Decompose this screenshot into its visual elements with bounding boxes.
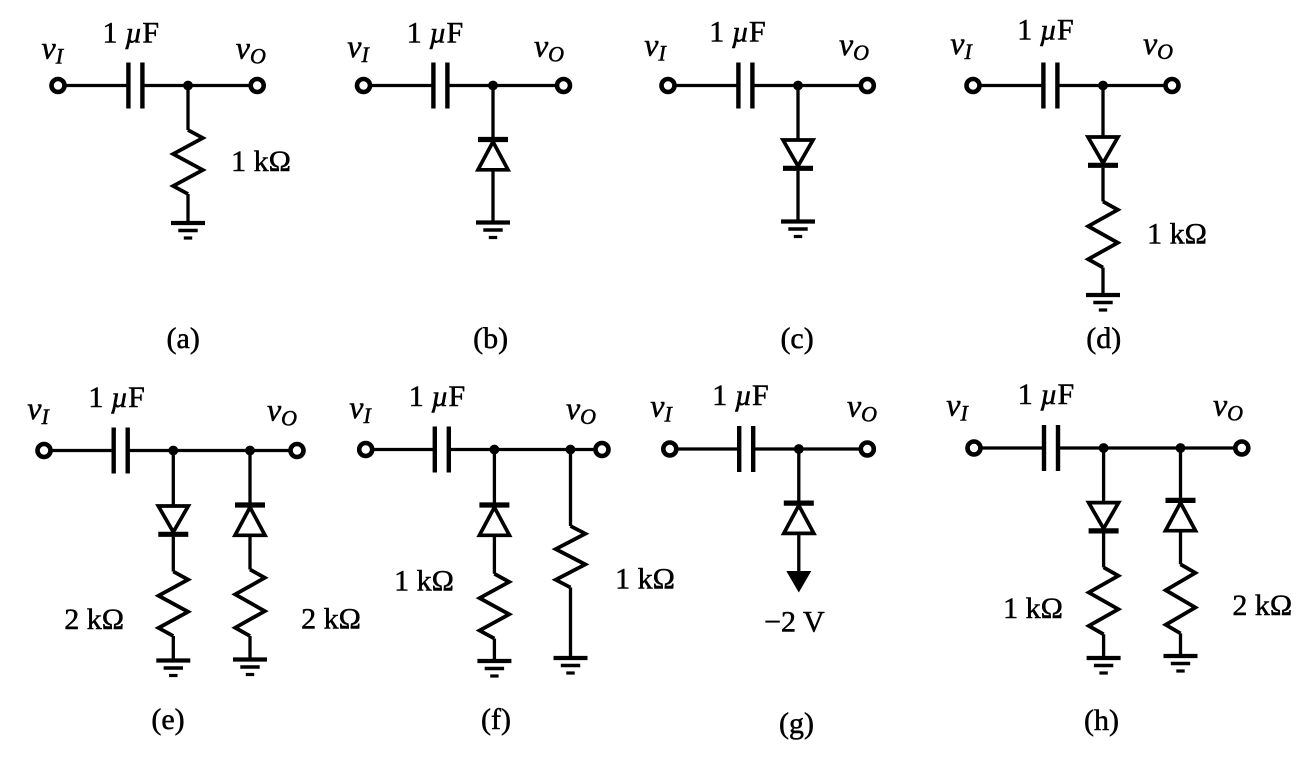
diode D2 (h) cathode up (1166, 500, 1196, 530)
wire (e) node 1 down to diode D1 (172, 451, 175, 507)
capacitor C 1uF (d) (1043, 63, 1057, 109)
svg-text:vI: vI (349, 389, 372, 428)
wire (a) input to capacitor (65, 84, 129, 87)
diode D1 (h) cathode down (1089, 503, 1119, 531)
wire (g) diode to -2V arrow (797, 533, 800, 575)
diode D2 (e) cathode up (235, 505, 265, 535)
svg-text:(g): (g) (779, 707, 814, 740)
capacitor C 1uF (h) (1044, 425, 1058, 471)
terminal vI (e) (38, 444, 51, 457)
capacitor C 1uF (g) (739, 426, 753, 472)
svg-text:(d): (d) (1086, 322, 1121, 355)
svg-text:vI: vI (27, 390, 50, 429)
ground (e) left (156, 661, 190, 676)
wire (d) resistor to ground (1101, 268, 1104, 296)
resistor R2 1 kOhm (f) (556, 526, 586, 588)
svg-text:1 kΩ: 1 kΩ (1147, 218, 1207, 251)
wire (h) diode D2 to resistor R2 (1179, 531, 1182, 565)
svg-text:1 µF: 1 µF (103, 17, 159, 50)
ground (a) (171, 223, 205, 238)
capacitor C 1uF (e) (114, 428, 128, 474)
resistor R1 2 kOhm (e) (159, 572, 189, 637)
ground (c) (781, 222, 815, 237)
svg-text:vI: vI (42, 30, 65, 69)
arrow to -2 V supply (g) (786, 571, 811, 593)
wire (a) capacitor to output (142, 84, 257, 87)
svg-text:1 µF: 1 µF (88, 381, 144, 414)
terminal vO (c) (861, 79, 874, 92)
wire (g) capacitor to output (753, 447, 867, 450)
svg-text:(b): (b) (473, 322, 508, 355)
wire (a) resistor to ground (186, 194, 189, 223)
wire (d) capacitor to output (1057, 84, 1172, 87)
wire (f) resistor R1 to ground (493, 639, 496, 661)
node (b) junction 1 (488, 81, 498, 91)
svg-text:(c): (c) (780, 322, 813, 355)
svg-text:vO: vO (1213, 387, 1243, 426)
svg-text:vO: vO (534, 28, 564, 67)
resistor R2 2 kOhm (e) (235, 570, 265, 637)
terminal vI (f) (359, 443, 372, 456)
capacitor C 1uF (b) (433, 63, 447, 109)
svg-text:vO: vO (1143, 25, 1173, 64)
wire (g) input to capacitor (676, 447, 739, 450)
terminal vO (d) (1166, 79, 1179, 92)
svg-text:1 µF: 1 µF (1018, 378, 1074, 411)
svg-text:1 µF: 1 µF (709, 16, 765, 49)
svg-text:1 kΩ: 1 kΩ (1003, 592, 1063, 625)
wire (h) capacitor to output (1058, 446, 1242, 449)
svg-text:(h): (h) (1084, 704, 1119, 737)
resistor R2 2 kOhm (h) (1166, 564, 1196, 633)
node (a) junction 1 (183, 81, 193, 91)
capacitor C 1uF (f) (435, 427, 449, 473)
svg-text:vI: vI (950, 25, 973, 64)
svg-text:−2 V: −2 V (764, 606, 825, 639)
terminal vO (h) (1235, 442, 1248, 455)
wire (e) node 2 down to diode D2 (248, 451, 251, 503)
svg-text:vI: vI (644, 27, 667, 66)
wire (c) capacitor to output (752, 84, 867, 87)
terminal vI (c) (662, 79, 675, 92)
svg-text:(f): (f) (481, 703, 511, 736)
wire (h) node 2 down to diode D2 (1179, 448, 1182, 498)
wire (d) input to capacitor (980, 84, 1044, 87)
terminal vI (b) (357, 79, 370, 92)
terminal vO (f) (596, 443, 609, 456)
diode D (g) cathode up (784, 503, 814, 533)
wire (e) diode D1 to resistor R1 (172, 537, 175, 572)
wire (a) node down to resistor R (186, 86, 189, 131)
terminal vO (a) (251, 79, 264, 92)
node (f) junction 2 (566, 445, 576, 455)
ground (b) (476, 223, 510, 238)
wire (e) diode D2 to resistor R2 (248, 535, 251, 569)
svg-text:vO: vO (566, 390, 596, 429)
svg-text:2 kΩ: 2 kΩ (1232, 589, 1292, 622)
svg-text:2 kΩ: 2 kΩ (301, 603, 361, 636)
svg-text:vO: vO (236, 30, 266, 69)
ground (d) (1086, 295, 1120, 310)
svg-text:1 µF: 1 µF (712, 379, 768, 412)
wire (c) diode to ground (796, 171, 799, 222)
wire (h) diode D1 to resistor R1 (1102, 533, 1105, 567)
capacitor C 1uF (c) (738, 63, 752, 109)
svg-text:vO: vO (847, 388, 877, 427)
svg-text:1 kΩ: 1 kΩ (394, 565, 454, 598)
wire (c) node down to diode D (796, 86, 799, 141)
wire (h) input to capacitor (981, 446, 1045, 449)
wire (f) capacitor to output (449, 448, 602, 451)
resistor R1 1 kOhm (h) (1089, 567, 1119, 634)
node (f) junction 1 (490, 445, 500, 455)
wire (h) resistor R1 to ground (1102, 634, 1105, 658)
wire (b) input to capacitor (370, 84, 433, 87)
wire (f) input to capacitor (372, 448, 435, 451)
wire (f) diode to resistor R1 (493, 535, 496, 574)
wire (g) node down to diode D (797, 449, 800, 501)
svg-text:1 kΩ: 1 kΩ (231, 145, 291, 178)
svg-text:1 µF: 1 µF (407, 17, 463, 50)
svg-text:1 kΩ: 1 kΩ (615, 563, 675, 596)
wire (b) node down to diode D (491, 86, 494, 138)
wire (d) node down to diode D (1101, 86, 1104, 138)
svg-text:vO: vO (267, 392, 297, 431)
svg-text:1 µF: 1 µF (1017, 14, 1073, 47)
wire (e) resistor R1 to ground (172, 636, 175, 661)
diode D (b) cathode up (478, 140, 508, 170)
svg-text:vI: vI (650, 388, 673, 427)
svg-text:vI: vI (347, 28, 370, 67)
wire (c) input to capacitor (675, 84, 739, 87)
diode D1 (e) cathode down (158, 506, 188, 534)
svg-text:vO: vO (839, 26, 869, 65)
terminal vO (e) (291, 444, 304, 457)
wire (d) diode to resistor R (1101, 168, 1104, 202)
svg-text:1 µF: 1 µF (409, 380, 465, 413)
wire (e) capacitor to output (128, 449, 297, 452)
wire (b) diode to ground (491, 170, 494, 223)
terminal vI (a) (52, 79, 65, 92)
wire (e) resistor R2 to ground (248, 636, 251, 660)
resistor R 1 kOhm (a) (173, 130, 203, 194)
wire (h) resistor R2 to ground (1179, 633, 1182, 656)
node (h) junction 2 (1176, 443, 1186, 453)
node (d) junction 1 (1098, 81, 1108, 91)
node (e) junction 1 (168, 446, 178, 456)
terminal vI (h) (968, 442, 981, 455)
node (h) junction 1 (1099, 443, 1109, 453)
node (g) junction 1 (794, 444, 804, 454)
ground (f) right (554, 658, 588, 673)
resistor R 1 kOhm (d) (1088, 202, 1118, 268)
terminal vO (g) (861, 443, 874, 456)
wire (b) capacitor to output (447, 84, 563, 87)
capacitor C 1uF (a) (128, 63, 142, 109)
diode D (c) cathode down (783, 140, 813, 168)
node (c) junction 1 (793, 81, 803, 91)
terminal vI (g) (663, 443, 676, 456)
svg-text:vI: vI (946, 387, 969, 426)
ground (h) left (1087, 658, 1121, 673)
ground (h) right (1164, 656, 1198, 671)
svg-text:(a): (a) (167, 322, 200, 355)
ground (f) left (477, 661, 511, 676)
terminal vO (b) (557, 79, 570, 92)
wire (f) node 2 down to resistor R2 (569, 450, 572, 527)
diode D (f) cathode up (479, 505, 509, 535)
svg-text:2 kΩ: 2 kΩ (64, 603, 124, 636)
diode D (d) cathode down (1088, 137, 1118, 165)
terminal vI (d) (967, 79, 980, 92)
svg-text:(e): (e) (151, 703, 184, 736)
wire (f) node 1 down to diode D (493, 450, 496, 503)
node (e) junction 2 (245, 446, 255, 456)
resistor R1 1 kOhm (f) (480, 574, 510, 639)
wire (e) input to capacitor (51, 449, 114, 452)
wire (h) node 1 down to diode D1 (1102, 448, 1105, 503)
wire (f) resistor R2 to ground (569, 588, 572, 659)
ground (e) right (233, 660, 267, 675)
